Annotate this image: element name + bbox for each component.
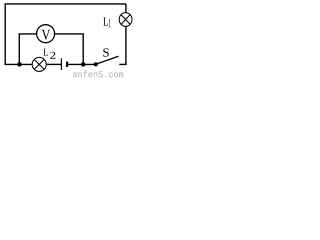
label S bbox=[103, 48, 109, 56]
node junction dot left (voltmeter branch joins bottom wire) bbox=[17, 62, 22, 67]
voltmeter letter V bbox=[42, 30, 51, 40]
watermark anfen5.com bbox=[73, 71, 123, 78]
wire voltmeter branch right horizontal bbox=[55, 33, 84, 35]
wire bottom left segment (lamp L2 to bottom left corner) bbox=[5, 63, 33, 65]
wire bottom right segment (corner to switch right terminal) bbox=[119, 63, 126, 65]
battery cell: long thin plate (positive) bbox=[60, 58, 62, 70]
wire bottom (battery to lamp L2) bbox=[46, 63, 61, 65]
wire right edge bottom segment (lamp L1 to bottom corner) bbox=[125, 26, 127, 64]
wire left edge and top edge of outer loop bbox=[5, 4, 126, 65]
lamp L2 bbox=[32, 57, 46, 71]
node junction dot right (voltmeter branch joins bottom wire) bbox=[81, 62, 86, 67]
switch S lever bbox=[96, 56, 119, 64]
label L2 bbox=[44, 49, 56, 59]
lamp L1 bbox=[119, 13, 132, 27]
label L1 bbox=[103, 18, 110, 28]
voltmeter V bbox=[37, 25, 55, 43]
battery cell: short thick plate (negative) bbox=[66, 62, 68, 67]
wire right edge top segment (top wire to lamp L1) bbox=[125, 4, 127, 13]
wire voltmeter branch left riser bbox=[18, 34, 20, 65]
switch S pivot dot bbox=[94, 62, 98, 66]
wire voltmeter branch left horizontal bbox=[19, 33, 37, 35]
wire voltmeter branch right riser bbox=[82, 34, 84, 65]
wire bottom middle (switch pivot to battery) bbox=[68, 63, 96, 65]
